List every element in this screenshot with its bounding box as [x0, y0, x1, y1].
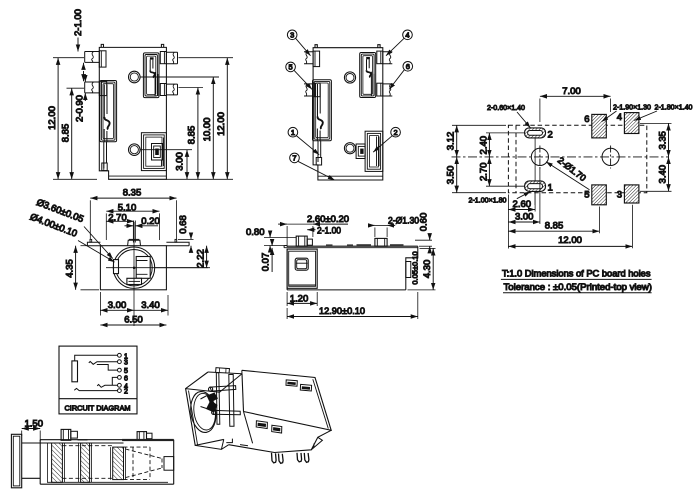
lower-right contact assembly	[365, 131, 383, 171]
hatched section A	[52, 443, 63, 482]
rear wall notch	[164, 457, 174, 471]
bottom edge details	[311, 437, 322, 450]
body inner top/bottom lines	[40, 443, 168, 482]
edge from body front corner down	[244, 412, 253, 444]
front block right vertical edge	[242, 374, 244, 412]
svg-text:8.85: 8.85	[187, 126, 198, 145]
horizontal centerline	[452, 156, 669, 158]
svg-text:10.00: 10.00	[202, 118, 213, 142]
pin 5 circle	[118, 368, 122, 372]
svg-text:3.00: 3.00	[175, 152, 186, 171]
svg-text:5: 5	[289, 63, 293, 72]
dim 2.70	[486, 157, 524, 186]
vertical centerline	[133, 222, 135, 326]
svg-text:3.40: 3.40	[141, 300, 160, 311]
dim 3.00 / 3.40	[100, 292, 168, 316]
upper-right tab	[383, 52, 393, 64]
left contact tail	[318, 141, 321, 162]
circle lower (hole)	[129, 144, 141, 156]
left tab mid (2-0.90)	[85, 82, 100, 93]
svg-text:3: 3	[290, 31, 294, 40]
dashed internal lines	[62, 446, 112, 479]
dim 2.40	[486, 133, 524, 157]
vertical center marks	[539, 146, 541, 169]
svg-text:1.50: 1.50	[25, 419, 44, 430]
pin 1 circle	[118, 353, 122, 357]
svg-text:2.70: 2.70	[478, 163, 489, 182]
svg-text:6: 6	[124, 375, 128, 382]
view D: front view (middle-left)	[28, 188, 210, 326]
top pads band (dark)	[122, 439, 174, 441]
contact vertical strip 1	[216, 373, 220, 425]
dim 3.00 right	[186, 150, 188, 180]
0.20 slit lines	[133, 221, 135, 243]
right face inner edge	[313, 379, 329, 428]
lug 2	[137, 432, 146, 441]
top face pad A	[286, 380, 297, 386]
contact arm lower	[213, 410, 240, 414]
bottom tab	[127, 278, 142, 284]
sleeve contact bar	[72, 361, 78, 382]
left wing pad	[87, 242, 100, 246]
bottom small tab under front block	[226, 439, 248, 446]
front bezel	[11, 434, 21, 488]
lower-right contact assembly	[141, 133, 166, 171]
rear latch bump	[406, 262, 411, 278]
callout 7	[290, 153, 300, 163]
right wing tab	[175, 239, 177, 242]
svg-text:12.90±0.10: 12.90±0.10	[319, 306, 365, 317]
top inner line	[284, 247, 418, 249]
contact arm upper	[210, 386, 236, 392]
wire pin4 with switch lever	[97, 385, 117, 388]
svg-text:CIRCUIT DIAGRAM: CIRCUIT DIAGRAM	[65, 403, 131, 412]
right tab upper	[166, 52, 177, 64]
dim 12.00	[508, 205, 632, 249]
dim 2.60	[508, 193, 535, 249]
callout 2	[391, 127, 401, 137]
svg-text:0.20: 0.20	[141, 216, 160, 227]
svg-text:4: 4	[617, 112, 622, 123]
svg-text:2: 2	[394, 128, 398, 137]
hole circle left (O1.70)	[531, 148, 548, 165]
svg-text:3: 3	[124, 360, 128, 367]
body rectangle	[100, 246, 166, 290]
svg-text:3.40: 3.40	[657, 165, 668, 184]
svg-text:4.30: 4.30	[422, 260, 433, 279]
front face inner wall line	[189, 391, 198, 445]
svg-text:3.35: 3.35	[657, 131, 668, 150]
main body top face	[242, 370, 331, 430]
callout 3	[287, 30, 297, 40]
view E: side view (middle-center)	[246, 213, 436, 319]
dim 0.68	[178, 233, 194, 252]
svg-text:0.07: 0.07	[260, 253, 271, 272]
svg-text:7.00: 7.00	[562, 86, 581, 97]
dashed cavity cone	[126, 449, 163, 478]
svg-text:2-Ø1.30: 2-Ø1.30	[388, 215, 419, 226]
dim 2.60+-0.20	[278, 224, 348, 247]
front block	[287, 249, 317, 288]
lug on front block top	[216, 368, 230, 374]
inner circle O3.60	[116, 250, 152, 286]
dim 4.35	[76, 246, 99, 290]
lug 2 (right mounting leg)	[375, 238, 387, 246]
svg-text:2.40: 2.40	[478, 136, 489, 155]
wire pin3 with switch lever	[89, 362, 118, 365]
body right/bottom silhouette	[229, 430, 332, 452]
right contact window	[136, 257, 150, 279]
pin 3 circle	[118, 360, 122, 364]
body top edge corner ticks	[101, 44, 164, 47]
pad 4	[624, 113, 639, 134]
view F: circuit diagram box (bottom-left)	[59, 346, 137, 414]
left inner tab	[114, 260, 119, 274]
dim 3.00	[508, 167, 540, 224]
svg-text:2.60±0.20: 2.60±0.20	[307, 214, 349, 225]
dim 0.60	[415, 234, 432, 254]
view G: sectional side view (bottom-left)	[11, 419, 173, 488]
svg-text:0.68: 0.68	[178, 215, 189, 234]
left tab mid base	[99, 81, 106, 95]
svg-text:6: 6	[584, 114, 589, 125]
horizontal centerline	[106, 267, 208, 269]
pin 4 circle	[118, 383, 122, 387]
dim 3.40 right	[640, 157, 672, 191]
pad 5	[592, 185, 607, 205]
svg-text:3.50: 3.50	[446, 166, 457, 185]
wire pin2 with switch lever	[74, 388, 117, 390]
dim 2-1.00	[307, 229, 315, 231]
bottom inner line	[318, 175, 383, 177]
hole circle right	[602, 148, 619, 165]
inner dashed line	[515, 125, 517, 192]
svg-text:2-1.00: 2-1.00	[317, 226, 341, 237]
body bottom inner line	[109, 175, 167, 177]
dim 3.35 right	[640, 123, 672, 156]
center pin dot	[133, 267, 135, 269]
dim 2-0.90 left	[84, 74, 86, 101]
view C: PC board holes layout (right)	[446, 86, 693, 293]
view A: connector top view (left)	[47, 9, 233, 179]
body outline	[99, 47, 166, 179]
barrel ellipse inner	[192, 392, 218, 431]
left wing tab	[90, 239, 92, 242]
svg-text:7: 7	[292, 154, 296, 163]
dim 8.85 left	[67, 88, 85, 179]
dim 0.07	[271, 240, 273, 273]
left tab upper (2-1.00)	[85, 52, 100, 63]
circle center line to right dims	[140, 76, 219, 78]
top face pad B	[300, 384, 311, 391]
left tab upper base	[99, 51, 106, 67]
barrel top tab	[128, 240, 141, 245]
dim 2-1.00 (top left)	[77, 38, 79, 52]
barrel neck	[22, 443, 41, 478]
front face hole B	[272, 425, 282, 433]
outer circle O4.00	[113, 247, 154, 288]
svg-text:2: 2	[548, 129, 553, 140]
dim 5.10	[106, 211, 159, 240]
dim 8.35	[90, 198, 176, 239]
dim 0.20	[125, 225, 159, 227]
dim 8.85 right	[166, 88, 233, 180]
internal wall lines	[48, 443, 126, 482]
top edge corner ticks	[315, 45, 380, 48]
body outline	[40, 440, 174, 485]
body outline	[313, 48, 383, 180]
svg-text:0.05±0.10: 0.05±0.10	[411, 251, 420, 284]
left contact tail to bottom	[104, 142, 107, 169]
svg-text:2: 2	[124, 389, 128, 396]
svg-text:2.60: 2.60	[513, 199, 532, 210]
dim 2-O1.30	[368, 225, 395, 237]
svg-text:2-1.00×1.80: 2-1.00×1.80	[469, 195, 507, 204]
front block top face	[186, 372, 242, 392]
left contact assembly	[100, 81, 117, 142]
dim 0.80	[264, 231, 296, 252]
svg-text:12.00: 12.00	[558, 235, 582, 246]
upper-right contact assembly	[143, 53, 159, 98]
dim 1.20	[287, 292, 317, 306]
svg-text:2-0.60×1.40: 2-0.60×1.40	[487, 103, 525, 112]
top pads band	[326, 244, 333, 246]
hatched section B	[81, 443, 90, 482]
svg-text:12.00: 12.00	[216, 112, 227, 136]
callout 1	[288, 127, 298, 137]
svg-text:12.00: 12.00	[47, 106, 58, 130]
upper-left tab	[304, 52, 313, 64]
svg-text:3.00: 3.00	[108, 300, 127, 311]
outer box	[59, 346, 137, 414]
dim 2.70	[106, 220, 134, 222]
dashed 2-1.00 dimension between left tabs	[83, 63, 85, 67]
svg-text:5: 5	[584, 190, 589, 201]
slot hole 2 (2-0.60x1.40)	[525, 128, 546, 138]
svg-text:4.35: 4.35	[64, 259, 75, 278]
wire pin6	[112, 377, 117, 385]
barrel ellipse outer	[188, 390, 218, 434]
contact claw (dark)	[206, 393, 218, 413]
left contact assembly	[313, 80, 332, 141]
circle upper (hole)	[129, 71, 141, 83]
svg-text:5: 5	[124, 368, 128, 375]
dim 4.30	[408, 248, 436, 290]
svg-text:2-1.00: 2-1.00	[73, 9, 84, 36]
lug 1	[61, 429, 71, 440]
pcb body dashed outline	[508, 125, 646, 192]
dim 8.85	[508, 207, 599, 234]
left pad lip	[284, 246, 287, 248]
svg-text:0.80: 0.80	[246, 227, 265, 238]
foot pair 1	[272, 453, 277, 463]
contact vertical strip 2	[229, 375, 234, 427]
dim 12.90+-0.10	[287, 292, 418, 319]
dim 10.00 right	[212, 77, 214, 179]
dim 7.00 top	[540, 96, 611, 122]
svg-text:3: 3	[617, 190, 622, 201]
mid-right tab	[383, 84, 393, 96]
dim 3.12 left	[452, 125, 506, 157]
svg-text:2-1.80×1.40: 2-1.80×1.40	[655, 103, 693, 112]
svg-text:6: 6	[406, 62, 410, 71]
svg-text:2.70: 2.70	[108, 212, 127, 223]
dim 2.22	[155, 246, 210, 268]
svg-text:8.85: 8.85	[545, 221, 564, 232]
callout 5	[286, 62, 296, 72]
svg-text:2.22: 2.22	[195, 249, 206, 268]
svg-text:2-0.90: 2-0.90	[74, 95, 85, 122]
divider line	[59, 398, 137, 400]
svg-text:2-1.90×1.30: 2-1.90×1.30	[613, 103, 651, 112]
view H: 3D isometric view (bottom-center)	[186, 368, 332, 464]
front face hole A	[256, 421, 267, 429]
lug 1 (left mounting leg)	[296, 236, 307, 246]
foot pair 2	[297, 453, 302, 462]
dim 6.50	[100, 324, 166, 326]
dim 12.00 left	[53, 58, 97, 180]
svg-text:8.85: 8.85	[61, 124, 72, 143]
callout 4	[403, 30, 413, 40]
label 2-O1.70 with leader	[546, 162, 590, 190]
pad 6	[592, 114, 607, 137]
pad 3	[624, 185, 639, 203]
svg-text:0.60: 0.60	[419, 213, 430, 232]
front block bottom sliver	[195, 439, 229, 449]
wire pin5 contact	[97, 365, 118, 371]
wire pin1 to sleeve	[75, 355, 118, 361]
svg-text:3.12: 3.12	[446, 132, 457, 151]
right wing pad	[166, 242, 189, 246]
dim 12.00 right	[179, 58, 234, 180]
slot hole 1 (2-1.00x1.80)	[525, 181, 546, 192]
svg-text:8.35: 8.35	[123, 188, 142, 199]
circles (holes)	[344, 72, 355, 83]
front window	[295, 258, 308, 270]
slot centerline	[534, 131, 536, 205]
main body outline	[287, 246, 418, 290]
right tab mid	[166, 84, 177, 95]
svg-text:T:1.0 Dimensions of PC board h: T:1.0 Dimensions of PC board holes	[502, 268, 651, 278]
mid-left tab	[304, 84, 313, 96]
svg-text:4: 4	[405, 31, 409, 40]
dim 3.50 left	[452, 157, 506, 193]
svg-text:1.20: 1.20	[290, 294, 309, 305]
svg-text:Tolerance : ±0.05(Printed-top: Tolerance : ±0.05(Printed-top view)	[504, 282, 653, 293]
pin 2 circle	[118, 389, 122, 393]
svg-text:6.50: 6.50	[124, 315, 143, 326]
svg-text:3.00: 3.00	[515, 212, 534, 223]
svg-text:1: 1	[291, 128, 295, 137]
view B: connector top view with callouts (middle)	[286, 30, 413, 180]
pin 6 circle	[118, 376, 122, 380]
upper-right contact assembly	[360, 53, 376, 98]
svg-text:1: 1	[548, 183, 553, 194]
hatched section C	[113, 447, 124, 480]
front face	[186, 372, 224, 445]
callout 6	[403, 62, 413, 72]
dim 1.50	[22, 429, 41, 442]
